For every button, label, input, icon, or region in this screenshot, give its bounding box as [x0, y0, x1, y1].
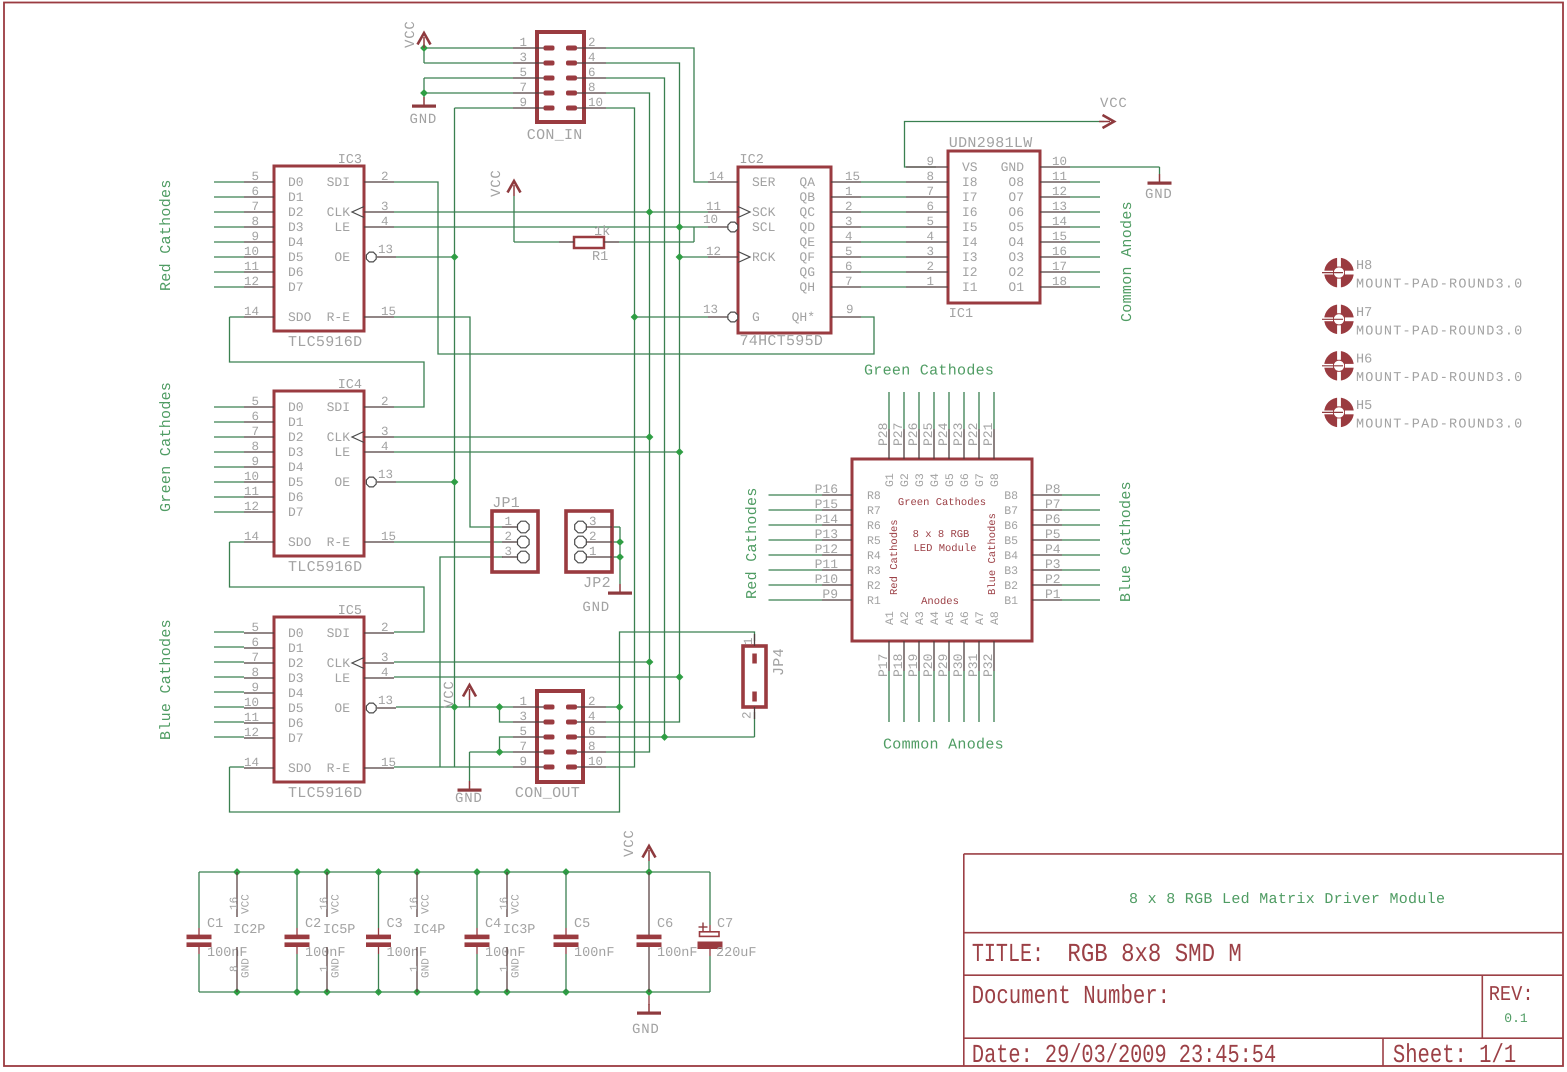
svg-text:P28: P28 — [876, 423, 891, 446]
svg-text:1: 1 — [589, 545, 597, 559]
wire IC2 RCK to latch bus — [680, 256, 709, 258]
capacitor C3 plates — [366, 935, 391, 940]
capacitor C6 leads — [648, 872, 650, 935]
svg-text:13: 13 — [378, 694, 393, 708]
svg-text:LE: LE — [334, 220, 350, 235]
power pins IC5P — [326, 872, 328, 917]
svg-text:11: 11 — [706, 200, 721, 214]
svg-text:Blue Cathodes: Blue Cathodes — [1118, 481, 1135, 602]
svg-text:D4: D4 — [288, 235, 304, 250]
power pins IC3P — [506, 872, 508, 917]
svg-text:R8: R8 — [867, 490, 881, 503]
svg-text:D2: D2 — [288, 205, 304, 220]
IC4 pin lines — [244, 406, 274, 408]
svg-text:D0: D0 — [288, 400, 304, 415]
capacitor C1 plates — [187, 935, 212, 940]
wire CON_IN pin 10 bus to CON_OUT pin 10 — [606, 108, 635, 767]
svg-text:G4: G4 — [929, 473, 942, 487]
IC1 left pin lines — [906, 166, 948, 168]
VCC symbol at capacitor rails — [643, 846, 656, 858]
svg-text:VCC: VCC — [1100, 96, 1128, 112]
svg-text:9: 9 — [846, 303, 854, 317]
CON_IN pin lines — [513, 47, 545, 49]
svg-text:MOUNT-PAD-ROUND3.0: MOUNT-PAD-ROUND3.0 — [1356, 324, 1523, 339]
svg-text:6: 6 — [926, 200, 934, 214]
svg-text:G2: G2 — [899, 473, 912, 487]
svg-text:R7: R7 — [867, 505, 881, 518]
VCC symbol at CON_OUT — [463, 685, 476, 697]
svg-text:13: 13 — [1052, 200, 1067, 214]
svg-text:9: 9 — [251, 681, 259, 695]
svg-text:6: 6 — [251, 410, 259, 424]
svg-text:C1: C1 — [207, 917, 223, 932]
IC2 RCK clock symbol — [738, 252, 750, 263]
wire IC3 OE to OE vertical — [396, 256, 455, 258]
svg-text:1: 1 — [845, 185, 853, 199]
svg-text:LED Module: LED Module — [913, 543, 976, 555]
svg-text:7: 7 — [251, 425, 259, 439]
svg-text:A8: A8 — [989, 611, 1002, 625]
svg-text:VS: VS — [962, 160, 978, 175]
svg-text:R4: R4 — [867, 550, 881, 563]
IC1 UDN2981LW box — [948, 151, 1040, 303]
svg-text:O7: O7 — [1008, 190, 1024, 205]
svg-text:Sheet: 1/1: Sheet: 1/1 — [1393, 1040, 1516, 1070]
svg-text:6: 6 — [845, 260, 853, 274]
svg-text:TLC5916D: TLC5916D — [288, 785, 362, 802]
svg-text:9: 9 — [519, 755, 527, 769]
JP4 inner pads — [752, 654, 757, 664]
wire IC5 LE to latch bus — [394, 676, 680, 678]
IC5 TLC5916D box — [274, 617, 364, 782]
svg-text:P8: P8 — [1045, 482, 1061, 497]
svg-text:1: 1 — [926, 275, 934, 289]
svg-text:3: 3 — [381, 651, 389, 665]
svg-text:D1: D1 — [288, 641, 304, 656]
svg-text:Green Cathodes: Green Cathodes — [158, 382, 175, 512]
svg-text:P2: P2 — [1045, 572, 1061, 587]
svg-text:R-E: R-E — [327, 535, 351, 550]
svg-text:14: 14 — [244, 756, 259, 770]
svg-text:P23: P23 — [951, 423, 966, 446]
svg-text:SDO: SDO — [288, 310, 312, 325]
svg-text:P7: P7 — [1045, 497, 1061, 512]
capacitor C4 leads — [476, 872, 478, 928]
svg-text:4: 4 — [845, 230, 853, 244]
svg-text:4: 4 — [926, 230, 934, 244]
wire latch net row (IC3 LE - IC2 SCL) with R1 jog — [394, 226, 708, 228]
IC3 TLC5916D box — [274, 166, 364, 331]
svg-text:15: 15 — [845, 170, 860, 184]
wire IC1 outputs O8-O1 stubs — [1070, 181, 1100, 183]
svg-text:C4: C4 — [485, 917, 501, 932]
svg-text:8: 8 — [926, 170, 934, 184]
svg-text:2: 2 — [926, 260, 934, 274]
svg-text:100nF: 100nF — [657, 946, 698, 961]
svg-text:1: 1 — [319, 965, 331, 972]
svg-text:B1: B1 — [1004, 595, 1018, 608]
svg-text:P5: P5 — [1045, 527, 1061, 542]
VCC symbol at IC1 — [1103, 115, 1115, 128]
capacitor C2 leads — [296, 872, 298, 928]
svg-text:Blue Cathodes: Blue Cathodes — [158, 619, 175, 740]
svg-text:MOUNT-PAD-ROUND3.0: MOUNT-PAD-ROUND3.0 — [1356, 417, 1523, 432]
svg-text:9: 9 — [926, 155, 934, 169]
capacitor C5 plates — [554, 935, 579, 940]
wire CON_OUT pin 6 to JP4 pin 2 — [606, 736, 755, 738]
svg-text:11: 11 — [244, 260, 259, 274]
svg-text:O8: O8 — [1008, 175, 1024, 190]
svg-text:O2: O2 — [1008, 265, 1024, 280]
CON_OUT connector box — [537, 691, 583, 782]
JP4 jumper box — [743, 646, 766, 707]
JP2 jumper box — [566, 511, 612, 572]
svg-text:8: 8 — [251, 440, 259, 454]
svg-text:P22: P22 — [966, 423, 981, 446]
svg-text:VCC: VCC — [331, 894, 343, 914]
svg-text:A3: A3 — [914, 611, 927, 625]
svg-text:D1: D1 — [288, 190, 304, 205]
svg-text:P31: P31 — [966, 653, 981, 677]
svg-text:IC4: IC4 — [338, 378, 362, 393]
svg-text:7: 7 — [845, 275, 853, 289]
svg-text:16: 16 — [1052, 245, 1067, 259]
svg-text:O6: O6 — [1008, 205, 1024, 220]
svg-text:SDI: SDI — [327, 626, 350, 641]
IC3 pin lines — [244, 181, 274, 183]
wire CON_OUT pin 2 stub to SDO vertical — [606, 706, 620, 708]
svg-text:REV:: REV: — [1489, 984, 1534, 1007]
svg-text:P26: P26 — [906, 423, 921, 446]
svg-text:8: 8 — [229, 965, 241, 972]
svg-text:14: 14 — [709, 170, 724, 184]
svg-text:D6: D6 — [288, 265, 304, 280]
svg-text:P1: P1 — [1045, 587, 1061, 602]
svg-text:D3: D3 — [288, 445, 304, 460]
svg-text:IC5: IC5 — [338, 604, 362, 619]
svg-text:5: 5 — [251, 621, 259, 635]
wire CON_OUT pin 7 to GND — [470, 751, 514, 753]
svg-text:1: 1 — [742, 637, 756, 645]
svg-text:MOUNT-PAD-ROUND3.0: MOUNT-PAD-ROUND3.0 — [1356, 371, 1523, 386]
svg-text:14: 14 — [1052, 215, 1067, 229]
svg-text:P21: P21 — [981, 422, 996, 446]
svg-text:16: 16 — [499, 897, 511, 910]
svg-text:D7: D7 — [288, 280, 304, 295]
IC2 G inverter circle — [728, 312, 738, 322]
svg-text:D5: D5 — [288, 701, 304, 716]
svg-text:OE: OE — [334, 250, 350, 265]
capacitor C5 leads — [565, 872, 567, 928]
IC5 CLK clock symbol — [352, 658, 364, 669]
capacitor C6 plates — [637, 935, 662, 940]
svg-text:D4: D4 — [288, 686, 304, 701]
IC3 CLK clock symbol — [352, 207, 364, 218]
svg-text:QA: QA — [799, 175, 815, 190]
svg-text:GND: GND — [582, 600, 610, 616]
wire LED module left pin stubs P16-P9 — [769, 494, 823, 496]
svg-text:P14: P14 — [815, 512, 839, 527]
svg-text:18: 18 — [1052, 275, 1067, 289]
svg-text:P16: P16 — [815, 482, 838, 497]
svg-text:3: 3 — [381, 200, 389, 214]
capacitor C2 plates — [285, 935, 310, 940]
wire CON_IN pin 2 bus to IC2 SER — [606, 48, 708, 182]
wire IC4 OE to OE vertical — [396, 481, 455, 483]
svg-text:4: 4 — [588, 710, 596, 724]
svg-text:14: 14 — [244, 305, 259, 319]
svg-text:SDI: SDI — [327, 175, 350, 190]
svg-text:A1: A1 — [884, 611, 897, 625]
svg-text:IC1: IC1 — [949, 307, 973, 322]
wire IC3 SDI from IC2 QH* — [394, 182, 874, 354]
wire IC2 G to bus — [635, 316, 709, 318]
svg-text:D0: D0 — [288, 175, 304, 190]
svg-text:QG: QG — [799, 265, 815, 280]
svg-text:8: 8 — [588, 81, 596, 95]
svg-text:Red Cathodes: Red Cathodes — [889, 519, 901, 595]
wire R1 to VCC — [513, 196, 515, 242]
wire LED module right pin stubs P8-P1 — [1062, 494, 1100, 496]
svg-text:B8: B8 — [1004, 490, 1018, 503]
svg-text:GND: GND — [241, 958, 253, 978]
svg-text:B2: B2 — [1004, 580, 1018, 593]
power pins IC4P — [416, 872, 418, 917]
svg-text:GND: GND — [421, 958, 433, 978]
IC1 right pin lines — [1040, 166, 1070, 168]
mount pad H7 — [1329, 309, 1349, 329]
svg-text:P15: P15 — [815, 497, 838, 512]
svg-text:9: 9 — [251, 455, 259, 469]
svg-text:10: 10 — [588, 96, 603, 110]
IC2 left pin lines — [708, 181, 738, 183]
svg-text:I7: I7 — [962, 190, 978, 205]
capacitor C4 plates — [465, 935, 490, 940]
IC2 SCL inverter circle — [728, 222, 738, 232]
svg-text:8 x 8 RGB: 8 x 8 RGB — [913, 529, 970, 541]
svg-text:VCC: VCC — [511, 894, 523, 914]
svg-text:P20: P20 — [921, 654, 936, 677]
svg-text:220uF: 220uF — [716, 946, 757, 961]
svg-text:D7: D7 — [288, 505, 304, 520]
svg-text:TITLE:: TITLE: — [972, 939, 1044, 969]
JP4 pin stubs — [754, 634, 756, 646]
svg-text:I1: I1 — [962, 280, 978, 295]
svg-text:D6: D6 — [288, 716, 304, 731]
svg-text:Red Cathodes: Red Cathodes — [158, 179, 175, 291]
svg-text:CLK: CLK — [327, 205, 351, 220]
svg-text:I2: I2 — [962, 265, 978, 280]
svg-text:2: 2 — [588, 695, 596, 709]
svg-text:O3: O3 — [1008, 250, 1024, 265]
IC2 SCK clock symbol — [738, 207, 750, 218]
svg-text:A2: A2 — [899, 611, 912, 625]
svg-text:O5: O5 — [1008, 220, 1024, 235]
svg-text:A4: A4 — [929, 611, 942, 625]
svg-text:IC2: IC2 — [740, 153, 764, 168]
wire IC2 QA-QH to IC1 I8-I1 — [861, 181, 906, 183]
svg-text:16: 16 — [409, 897, 421, 910]
svg-text:JP4: JP4 — [771, 648, 788, 676]
svg-text:12: 12 — [244, 275, 259, 289]
svg-text:R3: R3 — [867, 565, 881, 578]
svg-text:B6: B6 — [1004, 520, 1018, 533]
svg-text:QF: QF — [799, 250, 815, 265]
wire CON_OUT VCC stem — [469, 700, 471, 707]
IC2 right pin lines — [831, 181, 861, 183]
svg-text:5: 5 — [251, 170, 259, 184]
svg-text:D4: D4 — [288, 460, 304, 475]
svg-text:3: 3 — [589, 515, 597, 529]
svg-text:H8: H8 — [1356, 259, 1372, 274]
svg-text:P29: P29 — [936, 654, 951, 677]
svg-text:P17: P17 — [876, 654, 891, 677]
svg-text:Green Cathodes: Green Cathodes — [898, 497, 986, 509]
capacitor C7 leads — [709, 872, 711, 925]
IC3 OE inverter circle — [366, 252, 376, 262]
wire IC3 R-E to JP1 pin 1 — [394, 317, 502, 527]
IC4 TLC5916D box — [274, 391, 364, 556]
svg-text:C3: C3 — [387, 917, 403, 932]
svg-text:MOUNT-PAD-ROUND3.0: MOUNT-PAD-ROUND3.0 — [1356, 278, 1523, 293]
svg-text:QB: QB — [799, 190, 815, 205]
svg-text:P11: P11 — [815, 557, 839, 572]
svg-text:1: 1 — [499, 965, 511, 972]
svg-text:VCC: VCC — [403, 20, 419, 48]
LED module box — [852, 459, 1032, 641]
svg-text:D2: D2 — [288, 656, 304, 671]
mount pad H5 — [1329, 402, 1349, 422]
svg-text:0.1: 0.1 — [1504, 1011, 1528, 1026]
CON_OUT pads — [544, 705, 555, 710]
svg-text:P4: P4 — [1045, 542, 1061, 557]
wire IC4 CLK to SCK bus — [394, 436, 650, 438]
svg-text:17: 17 — [1052, 260, 1067, 274]
wire IC4 R-E to JP1 pin 2 — [394, 541, 502, 543]
svg-text:12: 12 — [244, 500, 259, 514]
svg-text:R6: R6 — [867, 520, 881, 533]
svg-text:Common Anodes: Common Anodes — [1119, 201, 1136, 322]
svg-text:H7: H7 — [1356, 306, 1372, 321]
svg-text:LE: LE — [334, 671, 350, 686]
svg-text:O1: O1 — [1008, 280, 1024, 295]
mount pad H6 — [1329, 356, 1349, 376]
ground at IC1 pin 10 — [1159, 174, 1161, 182]
svg-text:Common Anodes: Common Anodes — [883, 737, 1004, 754]
svg-text:OE: OE — [334, 701, 350, 716]
svg-text:VCC: VCC — [421, 894, 433, 914]
svg-text:RCK: RCK — [752, 250, 776, 265]
svg-text:QH: QH — [799, 280, 815, 295]
svg-text:6: 6 — [251, 185, 259, 199]
svg-text:2: 2 — [381, 170, 389, 184]
wire CON_IN pin 8 bus to CON_OUT pin 8 — [606, 93, 650, 752]
svg-text:D5: D5 — [288, 250, 304, 265]
svg-text:P32: P32 — [981, 654, 996, 677]
svg-text:P30: P30 — [951, 654, 966, 677]
svg-text:I4: I4 — [962, 235, 978, 250]
wire IC5 SDO to JP4 pin 1 and CON_OUT pin 2 — [230, 766, 245, 768]
svg-text:6: 6 — [251, 636, 259, 650]
svg-text:I6: I6 — [962, 205, 978, 220]
svg-text:9: 9 — [519, 96, 527, 110]
svg-text:9: 9 — [251, 230, 259, 244]
svg-text:OE: OE — [334, 475, 350, 490]
svg-text:P10: P10 — [815, 572, 838, 587]
svg-text:TLC5916D: TLC5916D — [288, 559, 362, 576]
svg-text:7: 7 — [251, 200, 259, 214]
svg-text:C5: C5 — [574, 917, 590, 932]
wire VCC feed of rails — [648, 861, 650, 872]
ground at CON_IN — [423, 97, 425, 105]
svg-text:P24: P24 — [936, 422, 951, 446]
power pins IC2P — [236, 872, 238, 917]
svg-text:13: 13 — [378, 243, 393, 257]
svg-text:4: 4 — [381, 440, 389, 454]
ground below capacitor rails — [648, 1004, 650, 1012]
svg-text:LE: LE — [334, 445, 350, 460]
svg-text:P12: P12 — [815, 542, 838, 557]
resistor R1 pin lines — [559, 241, 574, 243]
svg-text:QH*: QH* — [792, 310, 815, 325]
svg-text:1: 1 — [519, 36, 527, 50]
svg-text:1: 1 — [519, 695, 527, 709]
svg-text:JP2: JP2 — [583, 575, 611, 592]
svg-text:R1: R1 — [592, 250, 608, 265]
svg-text:10: 10 — [1052, 155, 1067, 169]
svg-text:6: 6 — [588, 725, 596, 739]
CON_IN connector box — [537, 32, 584, 122]
wire CON_IN pin 4 bus to CON_OUT pin 4 — [606, 63, 680, 722]
svg-text:P3: P3 — [1045, 557, 1061, 572]
svg-text:16: 16 — [229, 897, 241, 910]
svg-text:6: 6 — [588, 66, 596, 80]
svg-text:R2: R2 — [867, 580, 881, 593]
wire IC4 data stubs D0-D7 — [214, 406, 244, 408]
svg-text:IC4P: IC4P — [413, 923, 445, 938]
svg-text:D5: D5 — [288, 475, 304, 490]
svg-text:3: 3 — [926, 245, 934, 259]
svg-text:VCC: VCC — [622, 829, 638, 857]
JP2 pin lines and pads — [586, 526, 612, 528]
wire power rails of capacitor bank — [199, 871, 710, 873]
svg-text:R-E: R-E — [327, 761, 351, 776]
svg-text:IC3P: IC3P — [503, 923, 535, 938]
svg-text:11: 11 — [244, 711, 259, 725]
wire GND stem of rails — [648, 992, 650, 1005]
svg-text:QC: QC — [799, 205, 815, 220]
svg-text:1: 1 — [504, 515, 512, 529]
wire SCK net row (IC3 CLK - IC2 SCK) — [394, 211, 708, 213]
VCC symbol at CON_IN — [418, 33, 431, 45]
ground at CON_OUT — [469, 781, 471, 789]
wire IC1 GND pin 10 — [1070, 166, 1160, 168]
svg-text:SCL: SCL — [752, 220, 775, 235]
svg-text:3: 3 — [519, 51, 527, 65]
svg-text:P27: P27 — [891, 423, 906, 446]
svg-text:10: 10 — [244, 470, 259, 484]
wire CON_OUT pin 5 - pin 7 branch — [500, 737, 514, 752]
capacitor C1 leads — [198, 872, 200, 928]
svg-text:14: 14 — [244, 530, 259, 544]
svg-text:SCK: SCK — [752, 205, 776, 220]
svg-text:1: 1 — [409, 965, 421, 972]
IC4 OE inverter circle — [366, 477, 376, 487]
svg-text:10: 10 — [244, 696, 259, 710]
svg-text:7: 7 — [519, 81, 527, 95]
capacitor C3 leads — [378, 872, 380, 928]
svg-text:P9: P9 — [822, 587, 838, 602]
